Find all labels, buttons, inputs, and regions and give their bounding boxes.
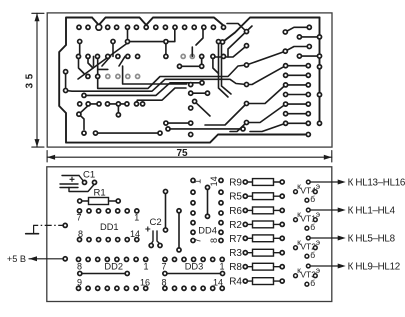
- svg-text:К HL5–HL8: К HL5–HL8: [348, 234, 396, 245]
- svg-text:14: 14: [209, 176, 219, 186]
- svg-text:R5: R5: [229, 192, 242, 203]
- svg-text:75: 75: [176, 148, 188, 159]
- svg-text:R3: R3: [229, 248, 242, 259]
- svg-text:R7: R7: [229, 234, 242, 245]
- svg-text:R4: R4: [229, 277, 242, 288]
- svg-text:DD4: DD4: [198, 226, 217, 236]
- svg-text:R8: R8: [229, 262, 242, 273]
- svg-text:R1: R1: [94, 187, 106, 198]
- svg-text:К HL9–HL12: К HL9–HL12: [348, 262, 400, 273]
- svg-text:DD2: DD2: [104, 262, 123, 272]
- svg-text:э: э: [316, 265, 320, 275]
- svg-text:+5 В: +5 В: [7, 254, 26, 264]
- svg-text:7: 7: [76, 213, 81, 223]
- svg-text:7: 7: [161, 262, 166, 272]
- svg-text:б: б: [310, 250, 315, 260]
- svg-text:DD1: DD1: [100, 222, 119, 232]
- svg-text:1: 1: [219, 262, 224, 272]
- svg-text:35: 35: [25, 70, 36, 88]
- svg-text:C2: C2: [150, 217, 162, 228]
- svg-text:э: э: [316, 237, 320, 247]
- svg-text:R6: R6: [229, 206, 242, 217]
- svg-text:8: 8: [209, 238, 219, 243]
- svg-text:б: б: [310, 278, 315, 288]
- svg-text:К HL1–HL4: К HL1–HL4: [348, 206, 396, 217]
- svg-text:DD3: DD3: [185, 262, 204, 272]
- svg-text:1: 1: [134, 213, 139, 223]
- svg-text:8: 8: [77, 262, 82, 272]
- svg-text:б: б: [310, 222, 315, 232]
- svg-text:R2: R2: [229, 220, 242, 231]
- svg-text:R9: R9: [229, 178, 242, 189]
- svg-text:э: э: [316, 209, 320, 219]
- svg-text:э: э: [316, 181, 320, 191]
- svg-text:б: б: [310, 194, 315, 204]
- svg-text:C1: C1: [83, 170, 95, 181]
- svg-text:1: 1: [143, 262, 148, 272]
- svg-text:К HL13–HL16: К HL13–HL16: [348, 178, 405, 189]
